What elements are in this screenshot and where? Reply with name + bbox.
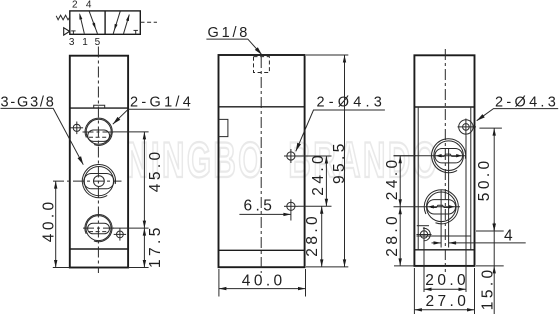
front view vertical centerline [97,47,99,274]
port A vertical tick [448,148,450,248]
svg-text:1: 1 [82,37,88,48]
svg-text:4: 4 [86,0,92,11]
extension line hole BL down [423,241,425,292]
valve symbol flow arrow 4-5 [89,11,97,34]
screw hole end top-right [458,119,477,136]
svg-text:2: 2 [72,0,78,11]
port B slot [427,200,456,214]
dim 28.0 mid [304,206,348,267]
svg-text:3: 3 [69,37,75,48]
svg-text:4: 4 [504,227,516,244]
port B inner circle [427,192,457,222]
valve symbol flow arrow right box down [113,11,120,34]
svg-text:95.5: 95.5 [331,140,348,184]
svg-text:28.0: 28.0 [384,213,401,257]
port 2 top slot [88,130,110,141]
port 2 top hidden dashes [89,136,109,138]
dim 40.0 mid [219,269,306,297]
side view section line top [219,106,305,108]
valve symbol frame [70,11,141,34]
dim 6.5 [239,198,291,216]
watermark NINGBO BRANDO [126,135,439,185]
svg-text:15.0: 15.0 [479,266,496,310]
front view section line top [70,107,128,109]
port B outer thread arc [424,190,458,224]
valve symbol pilot triangle [64,28,70,35]
svg-text:20.0: 20.0 [425,272,469,289]
dim 28.0 end [384,207,414,266]
dim 15.0 [476,223,504,314]
label G1/8 [206,25,263,56]
extension line hole TR down [465,135,467,292]
label 2-04.3 mid [294,94,386,152]
end view section line top [414,106,474,108]
port 1 middle outer thread arc [82,165,115,198]
dim 17.5 front [128,224,164,268]
svg-text:45.0: 45.0 [147,148,164,192]
dim 27.0 [414,268,474,314]
end view vertical centerline [444,49,446,272]
port 3 bottom inner circle [86,216,111,241]
svg-text:40.0: 40.0 [242,272,286,289]
port A slot [435,149,463,163]
port A outer thread arc [432,139,466,173]
valve symbol exhaust T right [134,30,138,34]
side view hidden port square [254,57,270,73]
dim 40.0 front [41,181,70,267]
front view top tab [94,105,105,108]
side view body outline [219,55,305,267]
valve symbol spring [56,15,70,20]
screw hole front top-left [71,122,84,135]
end view section line bottom [414,249,474,251]
svg-text:24.0: 24.0 [384,156,401,200]
front view section line bottom [70,248,128,250]
svg-text:40.0: 40.0 [41,198,58,242]
svg-text:5: 5 [95,37,101,48]
port 2 top outer thread arc [85,118,112,145]
side hole marker lower [284,199,298,220]
dim 50.0 [476,128,504,231]
svg-text:2-G1/4: 2-G1/4 [130,95,194,111]
port 3 bottom outer thread arc [85,214,112,241]
svg-text:6.5: 6.5 [244,198,276,215]
port B horizontal centerline [394,206,461,208]
svg-text:17.5: 17.5 [147,224,164,268]
svg-text:28.0: 28.0 [304,213,321,257]
end view cross line [417,235,471,237]
port A key marks [436,154,463,157]
dim 24.0 end [384,156,416,207]
dim 45.0 front [113,132,164,228]
end view inner edge left [417,107,419,250]
svg-text:50.0: 50.0 [476,157,493,201]
svg-text:27.0: 27.0 [426,293,470,310]
dim 20.0 [424,272,469,291]
port B vertical tick [440,190,442,248]
svg-text:24.0: 24.0 [310,152,327,196]
front view body outline [70,56,128,268]
end view inner edge right [470,107,472,250]
port 3 bottom hidden dashes [89,231,108,233]
port 3 bottom slot [88,223,110,234]
dim 95.5 [306,55,348,267]
port 1 middle horizontal centerline [53,180,122,182]
end view body outline [414,55,474,266]
port 2 top inner circle [86,119,111,144]
valve symbol flow arrow 1-2 [78,13,84,34]
port 3 bottom horizontal centerline [83,227,116,229]
port 1 middle inner circle [84,167,113,196]
side hole marker upper [284,149,298,163]
label 2-04.3 end [476,94,560,122]
port 1 middle center hole [94,176,105,187]
screw hole front bottom-right [114,228,126,240]
valve symbol exhaust T left [71,31,75,34]
label 2-G1/4 [111,95,194,126]
side view section line bottom [219,249,305,251]
label 3-G3/8 [1,95,86,166]
dim 4 [432,227,526,244]
port 1 middle slot [84,174,114,189]
svg-text:2-Ø4.3: 2-Ø4.3 [317,94,387,110]
port A inner circle [434,141,464,171]
valve symbol pilot dashed line [141,21,158,23]
screw hole end bottom-left [417,226,432,241]
valve symbol flow arrow right box up [124,14,131,34]
side view left tab [219,119,228,136]
side view vertical centerline [260,57,262,273]
svg-text:2-Ø4.3: 2-Ø4.3 [495,94,559,110]
dim 24.0 mid [298,152,332,206]
port B key marks [428,205,455,208]
port A horizontal centerline [394,155,467,157]
port 2 top horizontal centerline [83,131,116,133]
